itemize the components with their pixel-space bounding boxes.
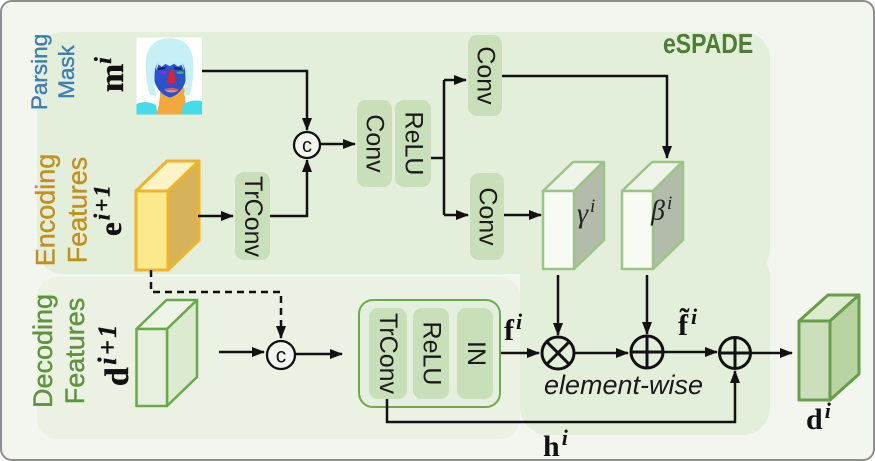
svg-text:c: c [276, 345, 287, 368]
svg-text:c: c [302, 135, 312, 157]
